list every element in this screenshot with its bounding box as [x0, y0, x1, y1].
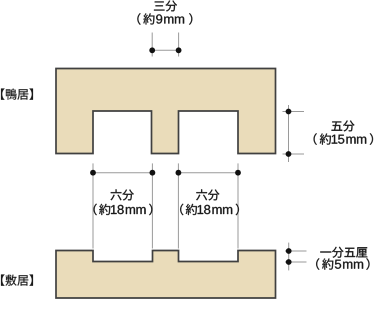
extension line A-left	[92, 163, 94, 248]
dimension dot left	[149, 47, 155, 53]
label （約5mm）	[316, 258, 369, 270]
label （約18mm） B	[180, 204, 239, 216]
extension line A-right	[151, 163, 153, 248]
label 【鴨居】 kamoi/lintel	[1, 89, 33, 100]
extension stub at groove top	[283, 111, 305, 113]
dimension dot top	[286, 248, 292, 254]
extension line B-right	[237, 163, 239, 248]
label 五分	[332, 121, 355, 132]
dimension dot A-left	[90, 170, 96, 176]
extension line right of 9mm tab	[178, 33, 180, 57]
label 六分 A	[111, 189, 134, 200]
label （約9mm）	[137, 13, 192, 25]
label 【敷居】 shikii/threshold	[1, 275, 33, 286]
label 一分五厘	[320, 247, 367, 258]
dimension dot B-left	[176, 170, 182, 176]
dimension line B groove width 18mm	[178, 172, 238, 174]
label （約18mm） A	[94, 204, 153, 216]
label 六分 B	[196, 189, 219, 200]
kamoi beam (top lintel cross-section with two grooves)	[56, 69, 276, 154]
dimension dot B-right	[235, 170, 241, 176]
dimension line groove depth 5mm	[288, 243, 290, 271]
dimension dot bottom	[286, 151, 292, 157]
extension stub at groove floor	[285, 261, 307, 263]
extension stub at threshold top	[285, 250, 307, 252]
dimension dot bottom	[286, 259, 292, 265]
label 三分	[154, 1, 177, 12]
dimension line 9mm tab width	[152, 49, 178, 51]
shikii beam (bottom threshold cross-section with two shallow grooves)	[56, 251, 276, 299]
extension stub at beam bottom	[283, 153, 305, 155]
dimension line A groove width 18mm	[93, 172, 152, 174]
extension line B-left	[177, 163, 179, 248]
dimension line groove depth 15mm	[288, 105, 290, 162]
dimension dot right	[176, 47, 182, 53]
dimension dot A-right	[150, 170, 156, 176]
label （約15mm）	[314, 133, 373, 145]
extension line left of 9mm tab	[151, 33, 153, 57]
dimension dot top	[286, 109, 292, 115]
